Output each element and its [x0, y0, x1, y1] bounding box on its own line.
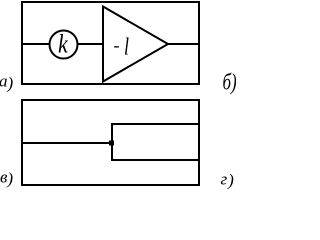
wire upper branch: [111, 123, 199, 125]
frame box (a)-(b): [22, 2, 199, 84]
svg-text:г): г): [221, 169, 235, 189]
svg-text:-: -: [114, 35, 120, 55]
wire input to gain block: [22, 43, 103, 45]
wire lower branch: [111, 159, 199, 161]
svg-text:k: k: [58, 30, 69, 59]
svg-text:в): в): [0, 168, 13, 189]
label l: [124, 33, 129, 60]
svg-text:l: l: [124, 33, 129, 60]
label b): [223, 70, 237, 95]
label k: [58, 30, 69, 59]
svg-text:а): а): [0, 71, 14, 92]
gain block k (circle): [50, 31, 78, 59]
svg-text:б): б): [223, 70, 237, 95]
wire vertical branch: [111, 123, 113, 161]
junction node: [109, 141, 114, 146]
op-amp / inverting amplifier triangle: [103, 7, 168, 82]
wire amplifier output: [167, 43, 199, 45]
wire input: [22, 142, 113, 144]
frame box (v)-(g): [22, 100, 199, 185]
